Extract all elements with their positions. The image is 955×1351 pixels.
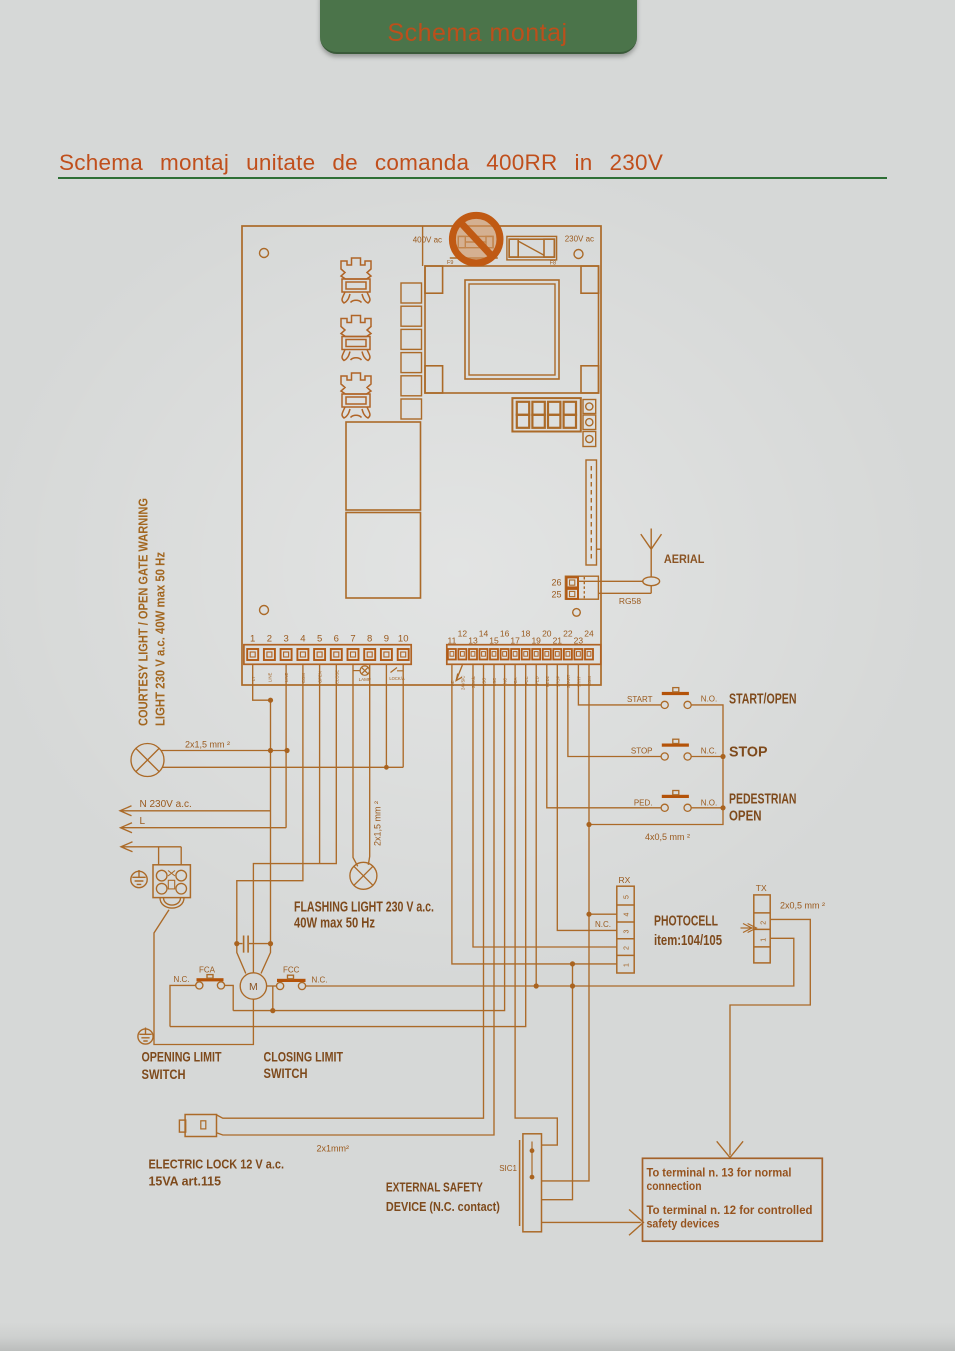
svg-text:LAMP: LAMP	[359, 677, 371, 682]
svg-text:STRT: STRT	[577, 676, 582, 687]
svg-text:OPEN: OPEN	[729, 809, 762, 825]
svg-text:14: 14	[479, 629, 489, 639]
svg-text:N 230V a.c.: N 230V a.c.	[140, 799, 192, 810]
svg-text:N.C.: N.C.	[595, 920, 611, 929]
svg-text:PED2: PED2	[545, 675, 550, 687]
svg-text:19: 19	[531, 636, 541, 646]
svg-text:13: 13	[468, 636, 478, 646]
svg-text:SWITCH: SWITCH	[142, 1067, 186, 1082]
svg-text:TX: TX	[756, 883, 767, 893]
svg-text:24VSIC: 24VSIC	[460, 676, 465, 690]
svg-text:17: 17	[510, 636, 520, 646]
svg-text:N.C.: N.C.	[312, 976, 328, 985]
svg-text:21: 21	[553, 636, 563, 646]
svg-text:15: 15	[489, 636, 499, 646]
svg-text:N.C.: N.C.	[174, 975, 190, 984]
svg-text:4: 4	[300, 634, 305, 645]
svg-text:2: 2	[761, 921, 768, 925]
svg-text:PEDESTRIAN: PEDESTRIAN	[729, 792, 797, 808]
svg-text:PED.: PED.	[634, 799, 653, 808]
svg-text:LOCK/A: LOCK/A	[389, 676, 405, 681]
svg-text:COM: COM	[301, 673, 306, 683]
svg-text:2: 2	[623, 946, 630, 950]
svg-text:LT: LT	[251, 676, 256, 681]
svg-text:FCC: FCC	[524, 676, 529, 685]
svg-text:connection: connection	[647, 1179, 702, 1193]
svg-text:11: 11	[447, 636, 456, 646]
svg-text:5: 5	[317, 634, 322, 645]
svg-text:2x1,5 mm ²: 2x1,5 mm ²	[373, 801, 383, 846]
svg-text:COURTESY LIGHT / OPEN GATE WAR: COURTESY LIGHT / OPEN GATE WARNING	[136, 498, 151, 726]
svg-text:COM: COM	[587, 676, 592, 686]
svg-text:9: 9	[384, 634, 389, 645]
svg-text:1: 1	[623, 963, 630, 967]
svg-text:OPENING LIMIT: OPENING LIMIT	[142, 1050, 223, 1065]
svg-text:3: 3	[283, 634, 288, 645]
svg-text:STOP: STOP	[729, 744, 768, 761]
svg-text:safety devices: safety devices	[647, 1217, 720, 1231]
svg-text:12: 12	[458, 629, 468, 639]
svg-text:NC: NC	[503, 678, 508, 684]
svg-text:2x1mm²: 2x1mm²	[317, 1144, 350, 1154]
svg-text:4: 4	[623, 913, 630, 917]
svg-text:25: 25	[551, 590, 561, 600]
svg-text:4x0,5 mm ²: 4x0,5 mm ²	[645, 832, 690, 842]
svg-text:STOP: STOP	[555, 675, 560, 687]
svg-text:STOP: STOP	[631, 747, 653, 756]
svg-text:16: 16	[500, 629, 510, 639]
svg-text:LSC: LSC	[492, 678, 497, 686]
svg-text:2: 2	[267, 634, 272, 645]
svg-text:24Vdc: 24Vdc	[471, 676, 476, 688]
svg-text:CLOSING LIMIT: CLOSING LIMIT	[264, 1050, 344, 1065]
svg-text:FLASHING LIGHT 230 V a.c.: FLASHING LIGHT 230 V a.c.	[294, 900, 434, 916]
svg-text:24: 24	[584, 629, 594, 639]
svg-text:26: 26	[551, 578, 561, 588]
svg-text:N.C.: N.C.	[701, 747, 717, 756]
svg-text:ELECTRIC LOCK 12 V a.c.: ELECTRIC LOCK 12 V a.c.	[149, 1157, 285, 1172]
svg-text:FCA: FCA	[199, 965, 216, 974]
svg-text:item:104/105: item:104/105	[654, 933, 722, 949]
svg-text:7: 7	[350, 634, 355, 645]
svg-text:EXTERNAL SAFETY: EXTERNAL SAFETY	[386, 1180, 483, 1195]
svg-text:M: M	[249, 981, 258, 993]
svg-text:1: 1	[761, 938, 768, 942]
svg-text:10: 10	[398, 634, 409, 645]
svg-text:To terminal n. 13 for normal: To terminal n. 13 for normal	[647, 1166, 792, 1180]
svg-text:22: 22	[563, 629, 573, 639]
svg-text:AE: AE	[450, 680, 455, 686]
svg-text:FCA: FCA	[513, 677, 518, 686]
svg-text:2x0,5 mm ²: 2x0,5 mm ²	[780, 901, 825, 911]
svg-text:23: 23	[574, 636, 584, 646]
svg-text:40W max 50 Hz: 40W max 50 Hz	[294, 916, 375, 932]
svg-text:LSO: LSO	[482, 677, 487, 686]
svg-text:START: START	[627, 695, 653, 704]
svg-text:F8: F8	[550, 261, 556, 267]
svg-text:AERIAL: AERIAL	[664, 554, 705, 566]
svg-text:LINE: LINE	[284, 672, 289, 682]
svg-text:DEVICE (N.C. contact): DEVICE (N.C. contact)	[386, 1199, 500, 1214]
svg-text:LIGHT 230 V a.c. 40W max 50 H: LIGHT 230 V a.c. 40W max 50 Hz	[153, 552, 168, 726]
svg-text:20: 20	[542, 629, 552, 639]
svg-text:230V ac: 230V ac	[565, 235, 594, 244]
svg-text:LINE: LINE	[268, 672, 273, 682]
svg-text:400V ac: 400V ac	[413, 236, 442, 245]
svg-text:N.O.: N.O.	[701, 799, 717, 808]
svg-text:To terminal n. 12 for control: To terminal n. 12 for controlled	[647, 1203, 813, 1217]
svg-text:SWITCH: SWITCH	[264, 1066, 308, 1081]
svg-text:N.O.: N.O.	[701, 695, 717, 704]
svg-text:3: 3	[623, 930, 630, 934]
svg-text:START: START	[566, 674, 571, 688]
svg-text:CLOSE: CLOSE	[334, 670, 339, 684]
svg-text:15VA art.115: 15VA art.115	[149, 1174, 222, 1189]
svg-text:2x1,5 mm ²: 2x1,5 mm ²	[185, 740, 230, 750]
svg-text:L: L	[140, 816, 146, 827]
svg-text:PED: PED	[534, 676, 539, 685]
svg-text:SIC1: SIC1	[499, 1164, 517, 1173]
svg-text:OPEN: OPEN	[318, 671, 323, 683]
svg-text:PHOTOCELL: PHOTOCELL	[654, 914, 718, 930]
svg-text:START/OPEN: START/OPEN	[729, 692, 797, 708]
svg-text:18: 18	[521, 629, 531, 639]
svg-text:8: 8	[367, 634, 372, 645]
svg-text:F9: F9	[447, 260, 453, 266]
svg-text:FCC: FCC	[283, 965, 300, 974]
svg-text:1: 1	[250, 634, 255, 645]
svg-text:RG58: RG58	[619, 596, 641, 606]
svg-text:5: 5	[623, 895, 630, 899]
svg-text:RX: RX	[619, 875, 631, 885]
svg-text:6: 6	[334, 634, 339, 645]
